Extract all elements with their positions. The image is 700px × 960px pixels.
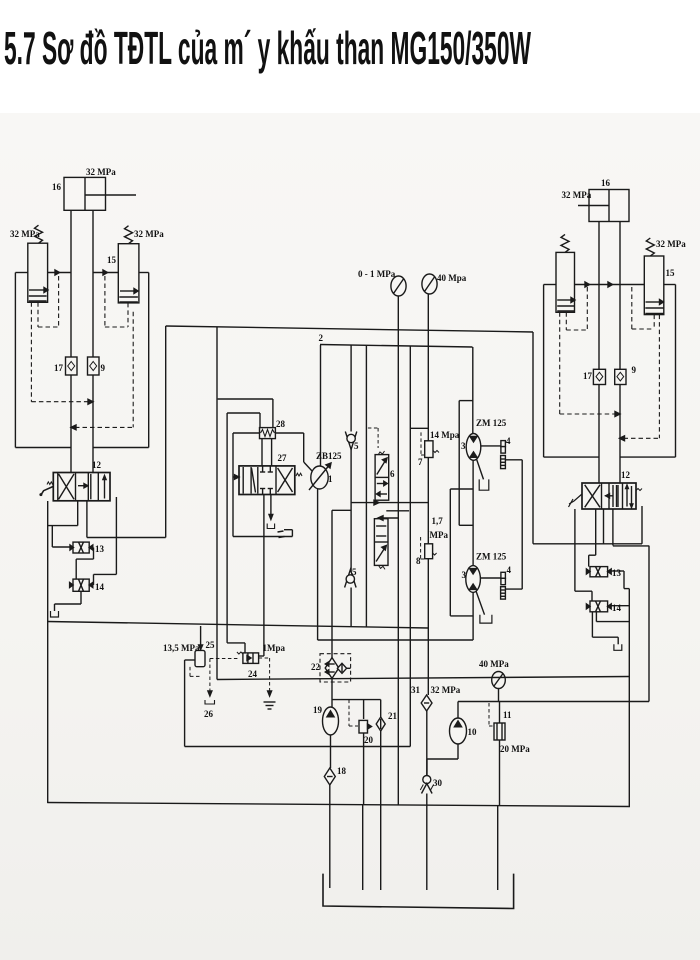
svg-text:7: 7 <box>418 457 423 467</box>
svg-text:6: 6 <box>390 469 395 479</box>
svg-text:26: 26 <box>204 709 214 719</box>
svg-text:2: 2 <box>319 333 324 343</box>
svg-text:20 MPa: 20 MPa <box>500 744 530 754</box>
svg-text:24: 24 <box>248 669 258 679</box>
svg-text:25: 25 <box>206 640 216 650</box>
svg-text:21: 21 <box>388 711 398 721</box>
svg-text:5: 5 <box>354 441 359 451</box>
svg-text:16: 16 <box>601 178 611 188</box>
svg-text:1: 1 <box>328 474 333 484</box>
svg-text:14 Mpa: 14 Mpa <box>430 430 460 440</box>
svg-text:ZM 125: ZM 125 <box>476 418 507 428</box>
svg-text:32 MPa: 32 MPa <box>10 229 40 239</box>
svg-text:11: 11 <box>503 710 512 720</box>
svg-text:10: 10 <box>468 727 478 737</box>
svg-text:8: 8 <box>416 556 421 566</box>
svg-text:16: 16 <box>52 182 62 192</box>
svg-text:15: 15 <box>107 255 117 265</box>
svg-text:17: 17 <box>583 371 593 381</box>
svg-text:4: 4 <box>507 565 512 575</box>
svg-text:5.7 Sơ đồ TĐTL của m´ y khấu t: 5.7 Sơ đồ TĐTL của m´ y khấu than MG150/… <box>4 22 531 74</box>
svg-text:28: 28 <box>276 419 286 429</box>
svg-text:27: 27 <box>278 453 288 463</box>
svg-text:4: 4 <box>506 436 511 446</box>
svg-text:32 MPa: 32 MPa <box>431 685 461 695</box>
svg-text:14: 14 <box>95 582 105 592</box>
svg-text:22: 22 <box>311 662 321 672</box>
svg-text:13: 13 <box>612 568 622 578</box>
svg-text:32 MPa: 32 MPa <box>562 190 592 200</box>
svg-text:31: 31 <box>411 685 421 695</box>
svg-text:19: 19 <box>313 705 323 715</box>
svg-text:17: 17 <box>54 363 64 373</box>
svg-text:12: 12 <box>92 460 102 470</box>
svg-text:13: 13 <box>95 544 105 554</box>
svg-text:32 MPa: 32 MPa <box>134 229 164 239</box>
svg-text:14: 14 <box>612 603 622 613</box>
svg-text:1Mpa: 1Mpa <box>263 643 286 653</box>
svg-text:40 Mpa: 40 Mpa <box>437 273 467 283</box>
svg-text:9: 9 <box>632 365 637 375</box>
svg-text:15: 15 <box>666 268 676 278</box>
svg-text:ZM 125: ZM 125 <box>476 552 507 562</box>
svg-text:32 MPa: 32 MPa <box>86 167 116 177</box>
svg-text:0 - 1 MPa: 0 - 1 MPa <box>358 269 396 279</box>
svg-text:13,5 MPa: 13,5 MPa <box>163 643 200 653</box>
svg-text:18: 18 <box>337 766 347 776</box>
svg-text:40 MPa: 40 MPa <box>479 659 509 669</box>
svg-text:32 MPa: 32 MPa <box>656 239 686 249</box>
svg-text:3: 3 <box>462 570 467 580</box>
svg-text:30: 30 <box>433 778 443 788</box>
svg-text:ZB125: ZB125 <box>316 451 342 461</box>
svg-text:12: 12 <box>621 470 631 480</box>
svg-text:5: 5 <box>352 567 357 577</box>
svg-text:MPa: MPa <box>430 530 449 540</box>
svg-text:20: 20 <box>364 735 374 745</box>
svg-text:1,7: 1,7 <box>432 516 444 526</box>
svg-text:9: 9 <box>101 363 106 373</box>
svg-text:3: 3 <box>461 441 466 451</box>
